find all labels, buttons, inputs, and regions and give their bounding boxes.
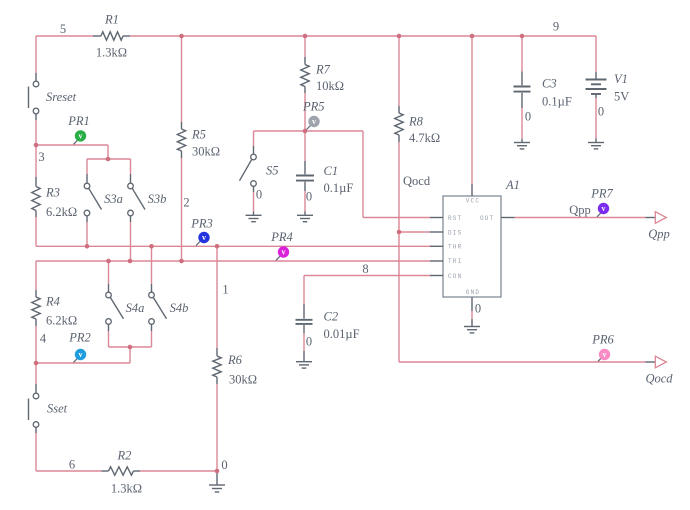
svg-text:V1: V1 (614, 72, 628, 86)
junction node 0 (215, 469, 220, 474)
probe PR5 (302, 99, 325, 129)
wire S4a top from rail 2 (108, 261, 110, 284)
ground below C3 (514, 139, 530, 149)
wire VCC riser to A1 (471, 36, 473, 184)
svg-text:RST: RST (448, 215, 462, 222)
output connector Qpp (646, 212, 670, 241)
wire net 3 vertical (107, 145, 109, 159)
junction dots rail 2 (106, 259, 111, 264)
svg-text:R1: R1 (104, 12, 119, 26)
wire S3b top drop (130, 159, 132, 174)
wire net 5 top-left horizontal (36, 35, 93, 37)
svg-text:5: 5 (60, 22, 66, 36)
svg-text:R5: R5 (191, 127, 206, 141)
junction dots rail 1 (85, 244, 90, 249)
svg-text:v: v (79, 132, 83, 141)
junction node 4 (34, 361, 39, 366)
pin stub CON (430, 275, 443, 277)
wire to RST pin (363, 217, 430, 219)
capacitor C3 (514, 72, 572, 109)
wire S4a bottom (108, 331, 110, 347)
svg-text:Sreset: Sreset (46, 90, 77, 104)
wire S3b bottom to rail 2 (130, 222, 132, 261)
svg-text:R2: R2 (117, 448, 132, 462)
pin stub VCC (471, 184, 473, 196)
svg-text:PR4: PR4 (270, 230, 293, 244)
wire S4 bottom bar (109, 346, 152, 348)
wire Sset bottom to net 6 (35, 433, 37, 471)
svg-text:GND: GND (466, 289, 480, 296)
junction dots top rail (179, 34, 184, 39)
wire R7 bottom to node PR5 (304, 93, 306, 131)
svg-text:30kΩ: 30kΩ (229, 372, 257, 386)
wire S4b bottom (151, 331, 153, 347)
svg-text:2: 2 (183, 195, 189, 209)
wire S3a bottom to rail 1 (86, 222, 88, 246)
svg-text:1: 1 (222, 282, 228, 296)
svg-text:v: v (312, 117, 316, 126)
wire node PR5 to RST vertical (362, 131, 364, 218)
svg-text:3: 3 (38, 150, 44, 164)
pin stub RST (430, 217, 443, 219)
svg-text:0: 0 (598, 104, 604, 118)
ground below A1 (464, 297, 480, 333)
capacitor C2 (296, 304, 360, 341)
svg-text:PR7: PR7 (590, 186, 613, 200)
svg-text:Qocd: Qocd (645, 371, 673, 385)
wire C2 top drop (303, 276, 305, 305)
svg-text:0.1µF: 0.1µF (542, 94, 572, 108)
svg-text:Sset: Sset (47, 401, 68, 415)
ground below C1 (297, 212, 313, 222)
svg-text:Qpp: Qpp (648, 227, 670, 241)
svg-text:v: v (603, 350, 607, 359)
wire net 2 rail TRI (36, 260, 430, 262)
switch S4b (149, 284, 189, 331)
svg-text:R7: R7 (315, 62, 331, 76)
resistor R4 (32, 290, 77, 327)
svg-text:PR3: PR3 (190, 216, 213, 230)
switch S3a (84, 174, 123, 222)
svg-text:0: 0 (525, 109, 531, 123)
wire OUT to Qpp arrow (515, 217, 646, 219)
wire V1 bottom to ground (595, 98, 597, 139)
pin stub OUT (501, 217, 515, 219)
svg-text:1.3kΩ: 1.3kΩ (96, 45, 127, 59)
pin stub THR (430, 245, 443, 247)
resistor R3 (32, 177, 77, 219)
svg-text:4: 4 (40, 331, 47, 345)
wire S5 bottom to ground (253, 192, 255, 212)
svg-text:CON: CON (448, 273, 462, 280)
svg-text:30kΩ: 30kΩ (192, 144, 220, 158)
svg-text:0.01µF: 0.01µF (324, 327, 360, 341)
ground node 0 bottom (209, 471, 225, 492)
svg-text:C3: C3 (542, 76, 557, 90)
switch Sset (29, 384, 68, 433)
ground below C2 (296, 351, 312, 368)
svg-text:PR5: PR5 (302, 99, 325, 113)
probe PR7 (590, 186, 613, 217)
svg-text:OUT: OUT (480, 215, 494, 222)
resistor R5 (177, 122, 220, 158)
switch S4a (106, 284, 145, 331)
switch Sreset (29, 73, 77, 120)
wire node PR5 horizontal (254, 130, 364, 132)
svg-text:1.3kΩ: 1.3kΩ (111, 481, 142, 495)
svg-text:6.2kΩ: 6.2kΩ (46, 313, 77, 327)
svg-text:S3b: S3b (148, 192, 167, 206)
svg-text:10kΩ: 10kΩ (316, 79, 344, 93)
wire net 4 to Sset (35, 363, 37, 384)
svg-text:6.2kΩ: 6.2kΩ (46, 205, 77, 219)
switch S3b (128, 174, 167, 222)
svg-text:0: 0 (256, 187, 262, 201)
svg-text:9: 9 (553, 19, 559, 33)
svg-text:v: v (79, 350, 83, 359)
svg-text:v: v (602, 204, 606, 213)
svg-text:TRI: TRI (448, 258, 462, 265)
capacitor C1 (296, 161, 353, 195)
svg-text:R6: R6 (227, 353, 243, 367)
svg-text:0: 0 (306, 334, 312, 348)
wire R3 bottom (35, 217, 37, 246)
wire S4b top from rail 1 (151, 246, 153, 284)
wire C2 bottom (303, 333, 305, 351)
svg-text:PR1: PR1 (67, 114, 90, 128)
svg-text:THR: THR (448, 244, 462, 251)
svg-text:VCC: VCC (466, 198, 480, 205)
wire V1 top drop (595, 36, 597, 72)
wire net 4 vertical from S4 bar (129, 347, 131, 363)
wire R4 top (35, 261, 37, 290)
svg-text:Qocd: Qocd (403, 174, 431, 188)
wire R5 bottom to rail 2 (181, 158, 183, 261)
svg-text:A1: A1 (505, 178, 520, 192)
ground below S5 (246, 212, 262, 222)
wire C1 top (304, 131, 306, 161)
resistor R6 (213, 348, 257, 386)
wire R5 top (181, 36, 183, 122)
wire R6 bottom to node 0 (216, 384, 218, 471)
svg-text:S4b: S4b (170, 301, 189, 315)
resistor R8 (395, 106, 440, 145)
svg-text:4.7kΩ: 4.7kΩ (409, 131, 440, 145)
svg-text:R4: R4 (45, 294, 60, 308)
wire R8 bottom Qocd vertical (398, 142, 400, 362)
wire net 6 horizontal (36, 470, 102, 472)
svg-text:Qpp: Qpp (569, 203, 591, 217)
svg-text:R3: R3 (45, 185, 60, 199)
svg-text:0: 0 (306, 189, 312, 203)
battery V1 (586, 72, 630, 104)
svg-text:DIS: DIS (448, 229, 462, 236)
wire net 1 rail THR (36, 245, 430, 247)
probe PR1 (67, 114, 90, 145)
switch S5 (240, 146, 279, 192)
junction node PR5 (303, 129, 308, 134)
probe PR2 (68, 330, 91, 362)
resistor R2 (102, 448, 143, 495)
pin stub DIS (430, 231, 443, 233)
junction node 3 (34, 143, 39, 148)
wire R8 top (398, 36, 400, 106)
wire to DIS pin (399, 231, 430, 233)
wire C3 top drop (521, 36, 523, 72)
probe PR4 (270, 230, 293, 260)
wire A1 GND (471, 311, 473, 319)
wire net 3 horizontal (36, 144, 108, 146)
wire R6 top from rail 1 (216, 246, 218, 348)
pin stub TRI (430, 260, 443, 262)
op-amp U1 IC A1 timer box (443, 178, 520, 297)
svg-text:0.1µF: 0.1µF (324, 181, 354, 195)
wire R4 bottom (35, 326, 37, 363)
wire net 5 vertical to Sreset (35, 36, 37, 73)
svg-text:v: v (282, 248, 286, 257)
svg-text:0: 0 (221, 458, 227, 472)
wire R3 top (35, 145, 37, 177)
svg-text:S4a: S4a (126, 301, 145, 315)
svg-text:0: 0 (475, 301, 481, 315)
svg-text:C2: C2 (324, 309, 339, 323)
svg-text:v: v (202, 233, 206, 242)
wire net Qocd horizontal (399, 361, 646, 363)
wire S3a top drop (86, 159, 88, 174)
output connector Qocd (645, 356, 673, 385)
svg-text:PR2: PR2 (68, 330, 91, 344)
wire C1 bottom to ground (304, 191, 306, 212)
wire R2 right to ground node 0 (140, 470, 217, 472)
svg-text:R8: R8 (408, 114, 424, 128)
wire Sreset bottom to net 3 (35, 120, 37, 145)
wire net 9 top rail (130, 35, 596, 37)
resistor R1 (93, 12, 130, 59)
ground below V1 (588, 139, 604, 149)
svg-text:8: 8 (362, 262, 368, 276)
resistor R7 (301, 57, 344, 93)
svg-text:PR6: PR6 (591, 332, 614, 346)
wire net 4 horizontal (36, 362, 130, 364)
wire C3 bottom to ground (521, 108, 523, 139)
svg-text:5V: 5V (614, 89, 629, 103)
wire S5 drop (253, 131, 255, 146)
junction DIS (397, 230, 402, 235)
wire R7 top (304, 36, 306, 57)
wire net 8 to CON pin (304, 275, 430, 277)
probe PR6 (591, 332, 614, 361)
probe PR3 (190, 216, 213, 245)
svg-text:S3a: S3a (104, 192, 123, 206)
svg-text:C1: C1 (324, 164, 339, 178)
wire S3 top bar (87, 158, 131, 160)
svg-text:S5: S5 (266, 163, 279, 177)
svg-text:6: 6 (69, 457, 75, 471)
